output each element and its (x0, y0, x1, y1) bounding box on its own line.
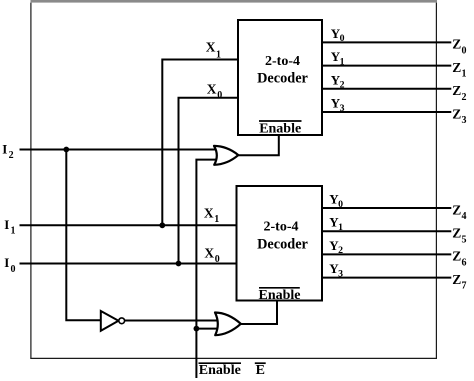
or-gate G1 (enable of U1) (214, 146, 238, 165)
wire U2 Y0 to Z4 (322, 207, 451, 209)
svg-text:1: 1 (338, 222, 343, 233)
node on I0 (branch to U1 X0) (176, 261, 182, 267)
output label Z4 (452, 202, 466, 222)
input label I1 (4, 217, 15, 237)
svg-text:3: 3 (338, 268, 343, 279)
pin label Y2 of U1 (331, 72, 345, 90)
svg-text:Decoder: Decoder (257, 237, 308, 253)
svg-text:I: I (4, 255, 9, 270)
wire I1 horizontal to U2 X1 (20, 224, 237, 226)
pin label Y2 of U2 (329, 238, 343, 256)
wire E-bar to G1 lower input (196, 160, 217, 378)
svg-text:Z: Z (452, 37, 461, 52)
svg-text:1: 1 (11, 226, 16, 237)
pin label X0 of U2 (204, 245, 219, 265)
pin label Y0 of U1 (331, 26, 345, 44)
node on I2 (branch to inverter) (63, 147, 69, 153)
svg-text:0: 0 (11, 264, 16, 275)
svg-text:7: 7 (462, 281, 467, 292)
inverter G3 (NOT gate on I2) (101, 311, 125, 331)
svg-text:0: 0 (340, 33, 345, 44)
pin label Y0 of U2 (329, 192, 343, 210)
svg-text:Z: Z (452, 83, 461, 98)
svg-text:Z: Z (452, 272, 461, 287)
svg-text:Enable: Enable (199, 363, 241, 378)
svg-text:X: X (204, 245, 214, 260)
pin label Y1 of U2 (329, 215, 343, 233)
wire U2 Y1 to Z5 (322, 230, 451, 232)
enable net label (Enable-bar) (199, 363, 242, 378)
svg-text:0: 0 (462, 46, 467, 57)
svg-text:1: 1 (462, 69, 467, 80)
svg-text:2-to-4: 2-to-4 (265, 54, 300, 69)
svg-text:Z: Z (452, 226, 461, 241)
svg-text:Enable: Enable (259, 121, 301, 136)
svg-text:0: 0 (215, 254, 220, 265)
wire U1 Y1 to Z1 (322, 65, 451, 67)
svg-text:Z: Z (452, 60, 461, 75)
wire U1 Y0 to Z0 (322, 41, 451, 43)
svg-text:0: 0 (338, 199, 343, 210)
svg-text:Z: Z (452, 106, 461, 121)
wire U2 Y3 to Z7 (322, 277, 451, 279)
wire G1 output to U1 enable (239, 135, 279, 155)
svg-text:E: E (256, 363, 265, 378)
svg-text:1: 1 (340, 56, 345, 67)
enable net label (E-bar) (255, 363, 266, 378)
svg-text:2: 2 (462, 92, 467, 103)
wire I0 branch up to U1 X0 (179, 98, 239, 264)
output label Z1 (452, 60, 466, 80)
wire I0 horizontal to U2 X0 (20, 263, 237, 265)
svg-text:6: 6 (462, 258, 467, 269)
node on E-bar line at G2 input (194, 326, 200, 332)
wire inverter output to G2 (125, 320, 219, 322)
output label Z3 (452, 106, 466, 126)
output label Z5 (452, 226, 466, 246)
wire G2 output to U2 enable (241, 301, 277, 325)
input label I2 (2, 142, 13, 162)
svg-text:I: I (2, 142, 7, 157)
wire I2 branch down to inverter (66, 150, 100, 321)
svg-text:5: 5 (462, 234, 467, 245)
svg-text:2-to-4: 2-to-4 (264, 219, 299, 234)
svg-text:I: I (4, 217, 9, 232)
pin label X1 of U2 (204, 205, 219, 225)
output label Z6 (452, 249, 466, 269)
wire U1 Y3 to Z3 (322, 111, 451, 113)
wire I2 horizontal (20, 149, 219, 151)
svg-text:0: 0 (217, 90, 222, 101)
svg-text:X: X (206, 40, 216, 55)
pin label X1 of U1 (206, 40, 221, 61)
svg-text:1: 1 (214, 214, 219, 225)
pin label Y1 of U1 (331, 49, 345, 67)
output label Z0 (452, 37, 466, 57)
svg-text:3: 3 (340, 103, 345, 114)
wire I1 branch up to U1 X1 (162, 60, 238, 226)
svg-text:Z: Z (452, 202, 461, 217)
wire E-bar to G2 lower input (196, 328, 218, 330)
pin label Y3 of U2 (329, 261, 343, 279)
wire U2 Y2 to Z6 (322, 253, 451, 255)
svg-text:4: 4 (462, 211, 467, 222)
output label Z2 (452, 83, 466, 103)
svg-text:X: X (207, 81, 217, 96)
svg-text:1: 1 (216, 49, 221, 60)
svg-text:2: 2 (340, 80, 345, 91)
wire U1 Y2 to Z2 (322, 88, 451, 90)
output label Z7 (452, 272, 466, 292)
svg-text:2: 2 (9, 150, 14, 161)
node on I1 (branch to U1 X1) (159, 222, 165, 228)
svg-text:Enable: Enable (258, 288, 300, 303)
decoder U2 (bottom 2-to-4 decoder) (237, 186, 323, 303)
svg-text:X: X (204, 205, 214, 220)
input label I0 (4, 255, 15, 275)
pin label X0 of U1 (207, 81, 222, 101)
pin label Y3 of U1 (331, 96, 345, 114)
svg-text:Decoder: Decoder (257, 71, 308, 87)
svg-text:Z: Z (452, 249, 461, 264)
svg-text:2: 2 (338, 245, 343, 256)
svg-text:3: 3 (462, 115, 467, 126)
or-gate G2 (enable of U2) (215, 313, 241, 336)
decoder U1 (top 2-to-4 decoder) (238, 20, 322, 136)
